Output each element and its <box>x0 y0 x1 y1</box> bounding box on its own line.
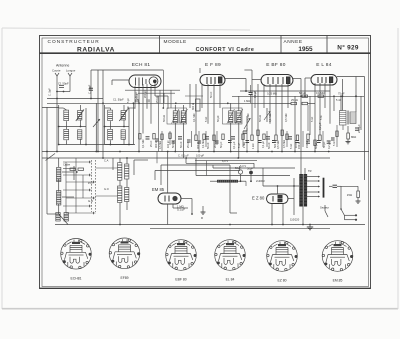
IF transformer T1 <box>167 108 188 124</box>
svg-text:500 pF: 500 pF <box>274 140 277 148</box>
svg-text:50 pF: 50 pF <box>220 141 223 148</box>
svg-text:0,1 MΩ: 0,1 MΩ <box>202 140 205 148</box>
ground EM85 <box>201 206 206 220</box>
wire antenna coil links <box>59 105 135 145</box>
svg-text:25 kΩ: 25 kΩ <box>291 98 298 102</box>
svg-text:300 Ω: 300 Ω <box>192 103 195 110</box>
wire EZ80 connections <box>263 168 299 225</box>
wire AVC line <box>47 102 260 104</box>
long bus mid2 <box>42 157 330 159</box>
svg-text:0,1 MΩ: 0,1 MΩ <box>192 114 196 122</box>
svg-text:200 pF: 200 pF <box>144 90 147 98</box>
socket ECH81 <box>61 239 92 270</box>
capacitor mains <box>329 185 341 187</box>
ground mains <box>356 198 361 204</box>
svg-text:C. 5pF: C. 5pF <box>48 88 52 96</box>
wire transformer top <box>301 96 305 224</box>
svg-text:E BF 80: E BF 80 <box>266 62 285 68</box>
svg-text:50 nF: 50 nF <box>206 142 210 149</box>
switch interrupteur <box>340 208 344 220</box>
value labels row2 <box>141 124 361 149</box>
svg-text:0,1 MΩ: 0,1 MΩ <box>141 140 145 148</box>
wire EL84 plate drop <box>342 79 344 111</box>
resistor padder <box>70 168 84 173</box>
resistor EF89 cathode <box>196 99 201 111</box>
svg-text:ANNEE: ANNEE <box>284 39 303 45</box>
wire grid bus antenna <box>47 98 103 100</box>
wire cadre links <box>47 158 74 225</box>
svg-text:C. 0,1 μF: C. 0,1 μF <box>178 154 189 158</box>
svg-text:E L 84: E L 84 <box>316 62 332 68</box>
svg-text:5 nF: 5 nF <box>204 116 208 122</box>
band switch dashed <box>92 160 96 212</box>
antenna coil L1 <box>64 110 69 121</box>
svg-text:0,5 MΩ: 0,5 MΩ <box>246 114 250 122</box>
svg-text:50 kΩ: 50 kΩ <box>172 141 175 148</box>
antenna coil L2 <box>64 129 69 140</box>
svg-text:75 pF: 75 pF <box>338 92 345 96</box>
tube EBF80 envelope <box>261 75 293 87</box>
svg-text:300 Ω: 300 Ω <box>154 141 158 148</box>
svg-text:100 pF: 100 pF <box>167 140 170 148</box>
bottom bus second <box>150 228 330 230</box>
border frame bottom emphasis <box>40 287 371 289</box>
antenna terminal longue <box>66 69 76 92</box>
switch secteur <box>325 205 328 217</box>
svg-text:0,5 MΩ: 0,5 MΩ <box>159 141 162 149</box>
transformer secondary arrows <box>307 176 320 198</box>
component row resistors mid <box>139 130 322 146</box>
wire EBF80 pin drops <box>244 70 301 152</box>
svg-text:100 pF: 100 pF <box>196 154 204 158</box>
svg-text:0,1 MΩ: 0,1 MΩ <box>268 114 272 122</box>
band switch labels <box>88 181 94 203</box>
volume pot arrow <box>264 108 271 122</box>
socket EF89 <box>109 238 140 269</box>
oscillator coil L3 <box>108 110 113 121</box>
capacitor electrolytic 1 <box>235 166 243 181</box>
socket EM85 <box>322 241 353 272</box>
wire ECH81 plate to T1 <box>162 70 164 108</box>
wire T1 connections <box>175 105 183 158</box>
resistor mains dropper <box>347 191 360 198</box>
svg-text:C1. 50pF: C1. 50pF <box>113 98 124 102</box>
svg-text:C.A: C.A <box>104 159 109 163</box>
trimmer CV4 <box>121 130 125 140</box>
svg-text:25 nF: 25 nF <box>150 140 153 147</box>
svg-text:50 kΩ: 50 kΩ <box>162 115 166 122</box>
oscillator coil L4 <box>108 129 113 140</box>
socket EL84 <box>215 240 246 271</box>
svg-text:G.O: G.O <box>88 199 94 203</box>
oscillator coil bank lower A <box>118 163 129 181</box>
svg-text:50 kΩ: 50 kΩ <box>299 91 306 95</box>
IF transformer T2 <box>223 108 243 124</box>
long bus mid1 <box>42 151 369 153</box>
svg-text:G.O: G.O <box>104 187 109 191</box>
capacitor electrolytic 2 <box>247 167 253 182</box>
svg-text:5 nF: 5 nF <box>310 116 314 122</box>
svg-text:15Ω: 15Ω <box>347 193 352 197</box>
capacitor decoupling EF89 <box>249 85 253 103</box>
svg-text:EM 85: EM 85 <box>152 187 165 192</box>
tone pot arrow <box>244 116 251 131</box>
svg-text:50 nF: 50 nF <box>179 141 183 148</box>
trimmer CV2 <box>78 130 82 140</box>
value labels lower area <box>63 154 329 222</box>
wire ECH81 grid top bus <box>91 69 163 71</box>
border frame inner <box>42 38 369 287</box>
svg-text:25 kΩ: 25 kΩ <box>156 96 159 103</box>
svg-text:50 nF: 50 nF <box>210 91 213 98</box>
svg-text:1955: 1955 <box>298 46 313 53</box>
socket EBF80 <box>166 240 197 271</box>
ground speaker <box>346 142 351 144</box>
capacitor grid coupling <box>89 88 93 90</box>
tube EF89 envelope <box>200 75 225 86</box>
svg-text:0,1 μF: 0,1 μF <box>254 90 257 98</box>
svg-text:E F 89: E F 89 <box>205 62 221 68</box>
svg-text:EF89: EF89 <box>120 276 128 280</box>
svg-text:EM.85: EM.85 <box>333 279 343 283</box>
svg-text:50 kΩ: 50 kΩ <box>258 115 262 122</box>
tube EM85 envelope <box>158 193 181 204</box>
svg-text:EZ 80: EZ 80 <box>277 279 286 283</box>
svg-text:110/220: 110/220 <box>290 218 300 222</box>
wire transformer feed <box>355 77 357 113</box>
svg-text:0,25 MΩ: 0,25 MΩ <box>267 92 277 96</box>
svg-text:R: R <box>201 216 203 220</box>
wire EF89 pin drops <box>190 68 246 152</box>
svg-text:1 kΩ: 1 kΩ <box>251 144 255 149</box>
value labels vertical row <box>48 84 323 130</box>
wire lower coil links <box>113 158 148 225</box>
tuning gang arrow <box>93 103 100 151</box>
antenna terminal courte <box>52 69 61 98</box>
svg-text:TR: TR <box>308 169 312 173</box>
svg-text:5 nF: 5 nF <box>333 141 336 146</box>
svg-text:50 pF: 50 pF <box>135 91 138 98</box>
svg-text:CONSTRUCTEUR: CONSTRUCTEUR <box>48 39 100 45</box>
svg-text:20 kΩ: 20 kΩ <box>214 141 217 148</box>
band switch ladder <box>63 158 118 214</box>
trimmer CV3 <box>119 110 127 122</box>
svg-text:0,2 μF: 0,2 μF <box>318 122 322 130</box>
svg-text:50 μF: 50 μF <box>323 141 326 148</box>
output transformer T3 <box>340 111 357 126</box>
trimmer CV1 <box>76 110 84 122</box>
svg-text:0,1 μF: 0,1 μF <box>177 208 185 212</box>
svg-text:E Z 80: E Z 80 <box>252 196 265 201</box>
svg-text:ECH 81: ECH 81 <box>132 62 151 68</box>
svg-text:0,1 μF: 0,1 μF <box>262 140 265 148</box>
svg-text:150 Ω: 150 Ω <box>306 141 309 148</box>
svg-text:0,1 μF: 0,1 μF <box>232 141 236 149</box>
svg-text:C1 50pF: C1 50pF <box>58 82 69 86</box>
header table <box>40 36 371 54</box>
svg-text:Cadre: Cadre <box>63 163 71 167</box>
switch cadre lever <box>46 154 56 161</box>
cadre coil bottom <box>56 213 69 222</box>
svg-text:0,2 μF: 0,2 μF <box>327 141 331 149</box>
value labels mid extra <box>127 90 336 149</box>
wire right verticals <box>295 96 361 151</box>
wire T2 connections <box>231 96 239 158</box>
svg-text:C. 50pF: C. 50pF <box>87 84 91 94</box>
svg-text:Antenne: Antenne <box>56 64 69 68</box>
oscillator coil bank lower B <box>118 186 129 203</box>
power transformer TR <box>299 174 307 207</box>
transformer core bar <box>323 178 325 198</box>
svg-text:Secteur: Secteur <box>320 206 329 210</box>
tube ECH81 envelope <box>129 75 161 88</box>
wire top resistor line <box>232 95 364 97</box>
wire ECH81 lower links <box>125 90 180 109</box>
resistor 80ohm <box>347 133 356 142</box>
svg-text:5 nF: 5 nF <box>320 115 323 120</box>
wire top bus EL84 plate <box>337 76 365 78</box>
component extra resistors mid band <box>161 131 338 140</box>
value labels row1 <box>113 91 345 103</box>
svg-text:50 nF: 50 nF <box>267 142 271 149</box>
tube EZ80 envelope <box>267 194 289 204</box>
cadre coil left lower <box>57 191 61 206</box>
svg-text:CONFORT VI Cadre: CONFORT VI Cadre <box>196 47 255 53</box>
svg-text:EL 84: EL 84 <box>226 278 235 282</box>
wire choke area <box>195 161 257 186</box>
component extra caps mid band <box>155 138 335 143</box>
svg-text:2x300V: 2x300V <box>256 179 265 183</box>
component resistors top right <box>260 95 324 105</box>
wire frame stub left <box>42 107 59 109</box>
svg-text:RADIALVA: RADIALVA <box>77 47 115 54</box>
svg-text:N° 929: N° 929 <box>337 44 359 52</box>
svg-text:50 pF: 50 pF <box>216 115 220 122</box>
svg-text:Longue: Longue <box>66 69 76 73</box>
svg-text:6,3 V: 6,3 V <box>222 159 228 163</box>
svg-text:50μF: 50μF <box>247 167 253 171</box>
svg-text:1 MΩ: 1 MΩ <box>244 99 250 103</box>
svg-text:5 nF: 5 nF <box>238 143 241 148</box>
border frame outer <box>40 36 371 289</box>
wire HT right vertical <box>364 77 366 181</box>
svg-text:MODELE: MODELE <box>164 39 187 45</box>
svg-text:5 nF: 5 nF <box>336 98 342 102</box>
wire extra mid verticals <box>157 90 343 163</box>
wire screen line <box>240 90 330 92</box>
capacitor C1 antenna <box>58 82 69 88</box>
wire left column <box>47 70 103 214</box>
svg-text:5 nF: 5 nF <box>289 143 293 149</box>
svg-text:0,5 MΩ: 0,5 MΩ <box>284 114 288 122</box>
svg-text:EBF 80: EBF 80 <box>175 278 186 282</box>
svg-text:P.O: P.O <box>88 181 93 185</box>
svg-text:50 μF: 50 μF <box>314 142 318 149</box>
ground bottom center <box>307 225 313 230</box>
svg-text:Courte: Courte <box>52 69 61 73</box>
wire mains right <box>341 186 358 209</box>
wire EM85 connections <box>155 152 240 225</box>
svg-text:5 pF: 5 pF <box>127 98 130 103</box>
resistor EM85 grid <box>177 205 185 212</box>
mains terminals <box>345 214 358 221</box>
socket EZ80 <box>267 241 298 272</box>
svg-text:ECH81: ECH81 <box>71 277 82 281</box>
svg-text:0,5 MΩ: 0,5 MΩ <box>283 140 286 148</box>
filter choke <box>210 180 246 183</box>
svg-text:0,1 MΩ: 0,1 MΩ <box>316 91 324 95</box>
svg-text:6,3 V: 6,3 V <box>240 164 246 168</box>
wire antenna junction <box>56 91 70 107</box>
wire EL84 pin drops <box>305 78 330 152</box>
component capacitors mid <box>146 128 360 143</box>
svg-text:80Ω: 80Ω <box>351 135 356 139</box>
wire oscillator links <box>105 103 134 144</box>
svg-text:2x50μF: 2x50μF <box>357 124 361 133</box>
bottom bus main <box>55 224 365 226</box>
wire step lines mid <box>186 158 295 213</box>
cadre coil left upper <box>57 168 61 182</box>
tube EL84 envelope <box>311 75 337 86</box>
wire EF89 grid line <box>185 95 203 97</box>
wire ECH81 pin drops <box>112 80 168 152</box>
